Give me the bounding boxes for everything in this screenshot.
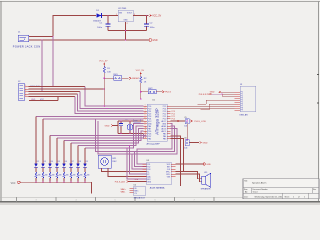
net flag GND speaker [203, 163, 211, 166]
buzzer BZ1 [98, 155, 117, 168]
regulator U2 7805 [116, 8, 135, 25]
label U3 designator [147, 160, 151, 162]
wire LED column 1 [35, 117, 37, 164]
node junction C1 tap [107, 15, 109, 17]
crystal Y1 [125, 119, 133, 134]
label GND VCC note [31, 99, 45, 101]
wire audio bus 3 U1 to U3 [132, 129, 177, 170]
net flag PULS [162, 91, 171, 94]
node junction LED rail 8 [84, 182, 86, 184]
capacitor C6 [184, 138, 189, 150]
svg-text:PULS: PULS [165, 92, 171, 94]
svg-text:330: 330 [73, 175, 76, 177]
label U4 designator [134, 185, 136, 187]
wire LED to resistor 7 [77, 167, 79, 172]
op-amp U1 microcontroller ATmega328P [147, 104, 167, 141]
wire R1 bottom to junction [103, 73, 105, 107]
svg-text:VCC_5V: VCC_5V [152, 15, 161, 17]
wire regulator VOUT to VCC_5V flag [133, 15, 149, 17]
connector J3 keypad [240, 86, 256, 112]
resistor R9 [77, 172, 82, 178]
LED D3 [41, 161, 46, 167]
svg-text:P7: P7 [241, 106, 243, 108]
svg-text:PB0: PB0 [148, 138, 151, 140]
pin stubs U3 right [171, 164, 176, 177]
node junction LED rail 2 [42, 182, 44, 184]
svg-text:330: 330 [87, 175, 90, 177]
label J3 designator [240, 84, 243, 86]
svg-text:C5: C5 [184, 117, 186, 119]
svg-text:Size: Size [244, 189, 248, 191]
svg-text:10: 10 [145, 127, 147, 129]
wire LED to resistor 8 [84, 167, 86, 172]
net flag GND crystal [105, 124, 113, 127]
wire resistor to rail 3 [49, 178, 51, 182]
svg-text:P1: P1 [241, 94, 243, 96]
wire LED column 6 [70, 143, 72, 163]
wire U3 K2 riser [130, 146, 147, 175]
capacitor C3 crystal [119, 121, 123, 134]
wire LED column 4 [56, 138, 58, 163]
svg-text:Sheet: Sheet [285, 196, 290, 199]
node junction isp row [104, 105, 106, 107]
svg-text:Rev: Rev [313, 189, 316, 191]
resistor R2 [140, 77, 148, 84]
label MISO MOSI near J2 [31, 86, 41, 88]
op-amp U3 audio module [147, 162, 172, 185]
svg-text:ATmega 328P: ATmega 328P [155, 108, 160, 135]
svg-text:A4: A4 [245, 191, 247, 194]
net label U1 right 1 [172, 111, 176, 113]
node junction LED rail 7 [77, 182, 79, 184]
svg-text:2: 2 [127, 23, 128, 25]
speaker LS1 [202, 172, 211, 187]
svg-text:Speaker Alarm: Speaker Alarm [252, 182, 267, 185]
net label WAV minus [121, 191, 126, 194]
node junction C3 top [120, 120, 121, 121]
node junction reset net [104, 88, 106, 90]
svg-text:104: 104 [184, 147, 187, 149]
capacitor C5 [184, 117, 189, 128]
svg-text:330: 330 [59, 175, 62, 177]
wire LED feed 6 [71, 129, 144, 144]
wire LED feed 5 [64, 131, 144, 141]
net flag PULS_LOW [191, 120, 206, 123]
wire diode cathode to regulator VIN [102, 15, 118, 17]
node junction LED rail 1 [35, 182, 37, 184]
pin stubs U4 left [129, 189, 133, 193]
net label WAV plus [121, 188, 127, 191]
svg-text:P3: P3 [241, 98, 243, 100]
wire LED to resistor 2 [42, 167, 44, 172]
node junction C5 top [186, 120, 188, 122]
svg-text:VOUT: VOUT [127, 12, 133, 14]
wire LED common rail [20, 182, 91, 193]
svg-text:P9: P9 [241, 110, 243, 112]
wire to switch S1 [104, 77, 113, 79]
resistor R3 [35, 172, 40, 178]
pin stub J2 pin5 [25, 95, 29, 97]
resistor R6 [56, 172, 61, 178]
node junction LED rail 3 [49, 182, 51, 184]
pin stubs U3 left [143, 164, 147, 182]
wire U3 VDD to GND flag [176, 163, 204, 165]
node junction R2 net bottom [140, 98, 142, 100]
wire crystal loop left [117, 121, 119, 134]
wire resistor to rail 2 [42, 178, 44, 182]
svg-text:PULS.R.PB: PULS.R.PB [199, 94, 210, 96]
wire LED column 5 [63, 141, 65, 164]
wire gnd to crystal loop [113, 125, 118, 127]
node junction gnd rail drop [125, 39, 127, 41]
wire aux bus left riser B [98, 121, 132, 154]
svg-text:104: 104 [184, 126, 187, 128]
svg-text:POWER JACK CON: POWER JACK CON [13, 45, 41, 48]
node junction Y1 top [129, 120, 130, 121]
wire ISP RESET to switch S1 [29, 88, 105, 90]
pin stubs U1 left [144, 105, 148, 140]
node junction C3 bottom [120, 133, 121, 134]
svg-text:P0: P0 [241, 92, 243, 94]
pin stubs J3 left [234, 92, 240, 110]
node junction Y1 bottom [129, 133, 130, 134]
svg-text:330: 330 [52, 175, 55, 177]
svg-text:D7: D7 [72, 161, 74, 163]
net flag GND C6 [199, 141, 207, 144]
wire LED feed 4 [57, 134, 144, 139]
wire LED column 8 [84, 148, 86, 163]
node junction J3 feed [221, 93, 223, 95]
svg-text:C6: C6 [184, 138, 186, 140]
wire LED column 7 [77, 146, 79, 164]
title block [243, 179, 319, 199]
wire LED feed 2 [43, 118, 144, 120]
wire LED feed 1 [36, 116, 144, 118]
resistor R7 [63, 172, 68, 178]
svg-text:1: 1 [304, 197, 305, 199]
svg-text:MEDIA BOX: MEDIA BOX [134, 196, 146, 199]
switch S1 reset [113, 74, 121, 80]
wire LED to resistor 5 [63, 167, 65, 172]
svg-text:ATmega328P: ATmega328P [147, 142, 161, 145]
wire U1 to J3 net A [171, 105, 235, 107]
svg-text:100n: 100n [150, 27, 156, 29]
svg-text:WAV+: WAV+ [121, 188, 127, 191]
svg-text:11: 11 [145, 130, 147, 132]
svg-text:D8: D8 [79, 161, 81, 163]
node junction aux drop B isp [52, 86, 54, 88]
svg-text:D6: D6 [65, 161, 67, 163]
LED D7 [69, 161, 74, 167]
wire LED feed 8 [85, 124, 144, 149]
LED D6 [62, 161, 67, 167]
svg-text:12: 12 [145, 132, 147, 134]
node junction switch S2 tap [140, 91, 142, 93]
wire resistor to rail 5 [63, 178, 65, 182]
node junction PB3 speaker net [183, 171, 185, 173]
node junction jack gnd [41, 39, 43, 41]
node junction LED rail 6 [70, 182, 72, 184]
svg-text:GND: GND [123, 20, 128, 22]
node junction C6 top [186, 139, 188, 141]
pin stub J2 pin4 [25, 92, 29, 94]
resistor R10 [84, 172, 89, 178]
LED D9 [83, 161, 88, 167]
svg-text:100u: 100u [97, 27, 103, 29]
LED D2 [34, 161, 39, 167]
wire J2 below note [29, 97, 58, 101]
wire to switch S2 [141, 91, 149, 93]
svg-text:P2: P2 [241, 96, 243, 98]
connector U4 media box [134, 186, 145, 196]
wire resistor to rail 8 [84, 178, 86, 182]
node junction switch S1 tap [104, 78, 106, 80]
svg-text:ALAS NATAMA: ALAS NATAMA [150, 187, 165, 190]
wire U1 AREF to C5 [171, 120, 186, 122]
svg-text:P4: P4 [241, 100, 243, 102]
svg-text:RESET: RESET [132, 78, 140, 80]
svg-text:10K: 10K [107, 71, 111, 73]
svg-text:PC0: PC0 [172, 118, 176, 120]
switch S2 [148, 88, 156, 94]
node junction riser A [95, 118, 97, 120]
node junction isp row2 [106, 108, 108, 110]
wire U1 PB3 drop [171, 139, 184, 172]
resistor R1 [103, 67, 111, 74]
svg-text:Date:: Date: [244, 196, 249, 199]
svg-text:PB3: PB3 [163, 138, 166, 140]
pin stub J2 pin3 [25, 90, 29, 92]
svg-text:330: 330 [66, 175, 69, 177]
svg-text:<Doc>: <Doc> [253, 191, 259, 194]
wire U1 to J3 net B [171, 108, 235, 110]
svg-text:P8: P8 [241, 108, 243, 110]
wire buzzer lead left [102, 168, 147, 172]
svg-text:VCC_5V: VCC_5V [136, 70, 145, 72]
label ATmega caption [147, 142, 161, 145]
label U1 designator [152, 100, 156, 102]
wire aux drop B to ISP [52, 37, 54, 87]
net flag GND top rail [149, 39, 158, 42]
wire resistor to rail 4 [56, 178, 58, 182]
wire ISP signal 3 routed to U1 [29, 94, 144, 111]
svg-text:PULS_A.B: PULS_A.B [115, 180, 126, 183]
wire LED column 2 [42, 119, 44, 163]
svg-text:Document Number: Document Number [253, 188, 268, 191]
svg-text:U4: U4 [134, 185, 136, 187]
net label U3 pin8 [134, 178, 138, 181]
wire audio bus 1 U1 to U3 [137, 124, 172, 165]
node junction K2 riser [129, 145, 130, 146]
svg-text:D2: D2 [37, 161, 39, 163]
svg-text:VCC: VCC [40, 99, 45, 101]
wire ISP signal 4 routed to U1 [29, 97, 144, 114]
svg-text:GND: GND [152, 40, 157, 42]
wire switch S1 to flag [122, 77, 129, 79]
wire R2 top lead [140, 74, 142, 76]
wire aux bus left riser A [96, 119, 135, 152]
svg-text:14: 14 [145, 137, 147, 139]
svg-text:Title: Title [244, 179, 247, 182]
net label U1 right 4 [172, 118, 176, 120]
capacitor C1 [97, 16, 110, 31]
wire GND rail from jack pin2 [29, 39, 149, 41]
node junction C2 tap [146, 15, 148, 17]
wire ISP signal 1 routed to U1 [29, 87, 144, 107]
net flag RESET [129, 77, 140, 80]
resistor R4 [42, 172, 47, 178]
LED D5 [55, 161, 60, 167]
LED D8 [76, 161, 81, 167]
node junction aux drop A isp [41, 91, 43, 93]
power flag VCC_5V for R1 [99, 61, 108, 65]
wire U3 SPK- to speaker [176, 174, 202, 182]
wire U3 DAC riser [127, 148, 147, 179]
svg-text:5: 5 [25, 95, 26, 97]
svg-text:GND: GND [206, 164, 211, 166]
svg-text:330: 330 [80, 175, 83, 177]
svg-text:GND: GND [210, 91, 215, 93]
wire crystal bottom to XTAL2 [118, 133, 144, 135]
pin stub J2 pin2 [25, 87, 29, 89]
wire resistor to rail 7 [77, 178, 79, 182]
svg-text:KEB. AR: KEB. AR [240, 113, 249, 116]
wire aux drop A to ISP [41, 40, 43, 92]
pin stub J2 pin1 [25, 85, 29, 87]
svg-text:1: 1 [116, 14, 117, 16]
net flag VCC_5V output [149, 14, 161, 17]
net label U1 right 2 [172, 113, 176, 115]
power flag VCC LED rail [11, 181, 20, 185]
wire capacitor ground rail [108, 30, 147, 32]
node junction regulator gnd rail [125, 30, 127, 32]
wire R2 bottom [140, 83, 142, 99]
net flag GND J3 [210, 91, 235, 93]
svg-text:D5: D5 [58, 161, 60, 163]
svg-text:D9: D9 [86, 161, 88, 163]
wire buzzer lead right [108, 168, 147, 177]
wire LED to resistor 6 [70, 167, 72, 172]
wire regulator GND pin drop [125, 22, 127, 40]
label audio module caption [150, 187, 165, 190]
svg-text:SPEAKER: SPEAKER [201, 188, 211, 191]
capacitor C2 [144, 16, 155, 31]
svg-text:D4: D4 [51, 161, 53, 163]
svg-text:REC: REC [113, 161, 118, 163]
wire audio bus 2 U1 to U3 [135, 126, 175, 167]
label SPEAKER caption [201, 188, 211, 191]
wire switch S2 to flag [156, 91, 162, 93]
svg-text:1: 1 [293, 197, 294, 199]
wire LED feed 3 [50, 135, 146, 138]
resistor R5 [49, 172, 54, 178]
node junction LED rail 5 [63, 182, 65, 184]
svg-text:VCC_5V: VCC_5V [99, 61, 108, 63]
svg-text:VCC: VCC [11, 183, 16, 185]
net label AREF arrow [178, 120, 180, 122]
pin stubs U1 right [167, 106, 171, 139]
svg-text:P5: P5 [241, 102, 243, 104]
wire LED to resistor 4 [56, 167, 58, 172]
wire R1 top lead [103, 65, 105, 67]
wire crystal top to XTAL1 [118, 120, 144, 122]
svg-text:GND: GND [31, 99, 36, 101]
label POWER JACK CON [13, 45, 41, 48]
power flag VCC_5V for R2 [136, 70, 145, 74]
label 16MHz [134, 119, 141, 123]
wire LED to resistor 1 [35, 167, 37, 172]
node junction LED rail 4 [56, 182, 58, 184]
svg-text:Wednesday, September 21, 2011: Wednesday, September 21, 2011 [255, 196, 283, 199]
diode D1 [93, 10, 101, 22]
wire C5 to C6 [186, 124, 188, 140]
net flag PULS_A.B [115, 180, 147, 183]
net label U1 right 3 [172, 116, 176, 118]
wire ISP signal 2 routed to U1 [29, 92, 144, 109]
wire U1 PB4 drop [171, 136, 181, 186]
svg-text:GND: GND [203, 142, 208, 144]
svg-text:LS1: LS1 [204, 172, 207, 174]
node junction DAC riser [126, 147, 127, 148]
net flag PULS.R.PB [199, 93, 235, 96]
svg-text:330: 330 [45, 175, 48, 177]
connector J2 ISP header [18, 81, 25, 100]
label MEDIA BOX caption [134, 196, 146, 199]
wire LED to resistor 3 [49, 167, 51, 172]
wire J3 step feed B [201, 104, 235, 110]
wire resistor to rail 6 [70, 178, 72, 182]
svg-text:WAV-: WAV- [121, 191, 126, 194]
connector J1 power jack [18, 32, 29, 42]
svg-text:P6: P6 [241, 104, 243, 106]
wire U3 SPK+ to speaker [176, 172, 202, 179]
LED D4 [48, 161, 53, 167]
resistor R8 [70, 172, 75, 178]
wire J3 step feed A [198, 100, 235, 104]
wire LED column 3 [49, 136, 51, 164]
svg-text:U2 7805: U2 7805 [118, 8, 127, 10]
svg-text:PULS_LOW: PULS_LOW [194, 121, 205, 123]
wire resistor to rail 1 [35, 178, 37, 182]
wire LED feed 7 [78, 126, 144, 146]
node junction at jack VIN corner [52, 36, 54, 38]
svg-text:GND: GND [105, 125, 110, 127]
wire C6 to GND flag [189, 142, 199, 144]
label J3 caption [240, 113, 249, 116]
svg-text:330: 330 [38, 175, 41, 177]
svg-text:D3: D3 [44, 161, 46, 163]
wire VIN from jack pin1 up and across to diode [29, 16, 97, 37]
